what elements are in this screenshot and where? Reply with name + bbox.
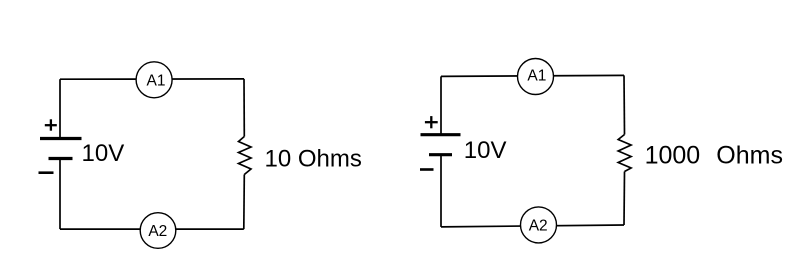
ammeter A2 [521, 207, 557, 243]
wire left lower (battery- down) [59, 159, 61, 230]
wire right lower [243, 175, 246, 230]
wire right upper [243, 79, 245, 137]
plus sign [45, 119, 57, 130]
battery B2 negative plate [429, 153, 452, 156]
svg-text:A2: A2 [148, 223, 167, 240]
svg-text:10 Ohms: 10 Ohms [265, 146, 362, 173]
minus sign [39, 171, 54, 174]
svg-text:Ohms: Ohms [716, 141, 783, 169]
svg-text:A1: A1 [147, 72, 166, 89]
minus sign [420, 168, 434, 171]
ammeter A1 [136, 62, 172, 98]
wire top (battery+ to resistor top via A1) [60, 78, 244, 80]
wire right upper [623, 75, 626, 134]
wire bottom (via A2) [60, 228, 244, 230]
wire left upper (battery+ up) [59, 79, 61, 138]
resistor R1 (10 Ohms) [239, 137, 252, 175]
svg-text:1000: 1000 [645, 141, 701, 169]
svg-text:A2: A2 [529, 217, 548, 234]
wire right lower [623, 172, 626, 226]
svg-text:10V: 10V [464, 137, 507, 164]
battery B1 positive plate [40, 137, 82, 140]
wire bottom (via A2) [441, 225, 624, 227]
ammeter A2 [140, 213, 176, 249]
wire left lower (battery- down) [440, 155, 442, 227]
wire left upper (battery+ up) [440, 76, 442, 134]
battery B1 negative plate [49, 157, 73, 160]
resistor R2 (1000 Ohms) [618, 135, 631, 172]
ammeter A1 [518, 59, 554, 95]
plus sign [425, 116, 438, 128]
wire top (battery+ to resistor top via A1) [441, 75, 624, 76]
battery B2 positive plate [421, 133, 461, 136]
svg-text:A1: A1 [527, 67, 546, 84]
svg-text:10V: 10V [82, 140, 125, 167]
